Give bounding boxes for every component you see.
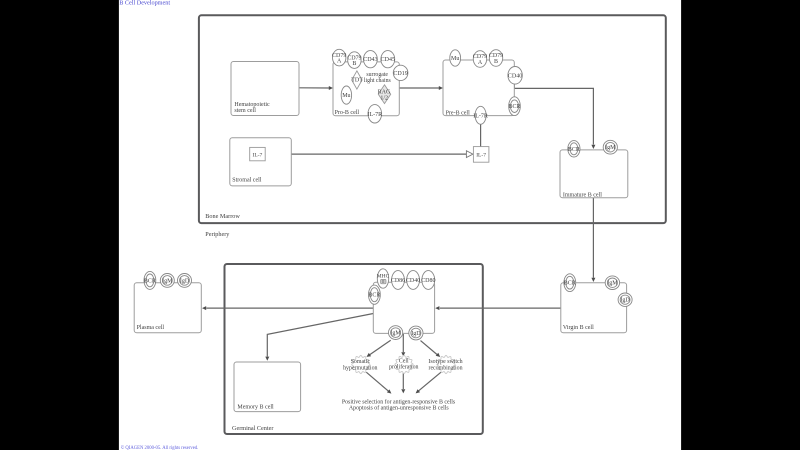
svg-text:IL-7R: IL-7R [367, 112, 382, 118]
svg-text:1/2: 1/2 [380, 96, 388, 102]
svg-text:BCR: BCR [368, 293, 380, 299]
svg-text:CD45: CD45 [381, 57, 395, 63]
svg-text:Mu: Mu [342, 93, 350, 99]
svg-text:IgD: IgD [411, 331, 421, 337]
svg-text:B: B [494, 59, 498, 65]
svg-text:Stromal cell: Stromal cell [232, 177, 261, 183]
svg-text:Somatic: Somatic [351, 359, 371, 365]
svg-text:recombination: recombination [428, 365, 462, 371]
svg-text:IgM: IgM [607, 281, 618, 287]
svg-text:Isotype switch: Isotype switch [428, 359, 462, 365]
svg-text:BCR: BCR [568, 147, 580, 153]
svg-text:Memory B cell: Memory B cell [237, 404, 274, 410]
svg-text:IgD: IgD [180, 278, 190, 284]
svg-text:IgM: IgM [390, 331, 401, 337]
svg-text:Plasma cell: Plasma cell [137, 325, 165, 331]
svg-text:IL-7R: IL-7R [473, 113, 488, 119]
svg-text:CD80: CD80 [421, 278, 435, 284]
svg-text:CD40: CD40 [508, 73, 522, 79]
svg-text:Germinal Center: Germinal Center [232, 425, 273, 432]
svg-text:BCR: BCR [564, 281, 576, 287]
svg-text:IL-7: IL-7 [476, 153, 486, 159]
svg-text:Mu: Mu [451, 56, 459, 62]
svg-text:BCR: BCR [144, 278, 156, 284]
svg-text:B Cell Development: B Cell Development [119, 0, 170, 7]
svg-text:proliferation: proliferation [389, 364, 418, 371]
svg-text:© QIAGEN 2000-05. All rights r: © QIAGEN 2000-05. All rights reserved. [121, 445, 199, 450]
svg-text:Apoptosis of antigen-unrespons: Apoptosis of antigen-unresponsive B cell… [349, 404, 450, 411]
svg-text:light chains: light chains [364, 78, 392, 84]
svg-text:MHC: MHC [377, 273, 390, 279]
svg-text:IL-7: IL-7 [253, 152, 263, 158]
svg-text:IgM: IgM [605, 145, 616, 151]
svg-text:Bone Marrow: Bone Marrow [205, 213, 240, 220]
svg-text:CD19: CD19 [393, 71, 407, 77]
svg-text:hypermutation: hypermutation [343, 365, 377, 371]
svg-text:A: A [337, 59, 342, 65]
svg-text:CD43: CD43 [363, 57, 377, 63]
svg-text:CD86: CD86 [391, 278, 405, 284]
svg-text:Pro-B cell: Pro-B cell [335, 110, 360, 116]
svg-text:Periphery: Periphery [205, 231, 230, 238]
svg-text:IgD: IgD [620, 298, 630, 304]
svg-text:Positive selection for antigen: Positive selection for antigen-responsiv… [342, 398, 456, 405]
svg-text:A: A [478, 60, 483, 66]
svg-text:CD40: CD40 [406, 278, 420, 284]
svg-text:Immature B cell: Immature B cell [563, 192, 602, 198]
svg-text:stem cell: stem cell [234, 108, 256, 114]
svg-text:B: B [352, 61, 356, 67]
svg-text:TDT: TDT [351, 78, 363, 84]
svg-text:BCR: BCR [508, 104, 520, 110]
svg-text:Cell: Cell [399, 358, 409, 364]
svg-text:IgM: IgM [162, 278, 173, 284]
svg-text:Virgin B cell: Virgin B cell [563, 325, 594, 331]
svg-text:Pre-B cell: Pre-B cell [446, 111, 470, 117]
